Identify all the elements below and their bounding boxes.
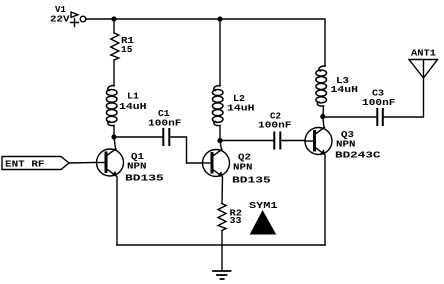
inductor L1 <box>106 86 117 126</box>
svg-text:100nF: 100nF <box>362 98 396 108</box>
symbol SYM1 <box>250 210 277 235</box>
wire Q3 emitter to ground rail <box>324 155 326 245</box>
svg-text:L1: L1 <box>127 92 139 102</box>
junction node C <box>111 134 116 139</box>
svg-text:33: 33 <box>230 216 242 226</box>
svg-text:BD243C: BD243C <box>335 151 381 161</box>
wire node B to L3 top <box>220 19 325 66</box>
svg-text:NPN: NPN <box>336 140 356 150</box>
wire node A to node B <box>114 18 220 20</box>
wire node E to Q3 collector <box>323 117 324 128</box>
voltage source V1 terminal <box>71 12 86 27</box>
svg-text:15: 15 <box>121 45 133 55</box>
svg-text:14uH: 14uH <box>227 104 255 114</box>
transistor Q3 <box>305 127 332 155</box>
wire ENT RF to Q1 base <box>69 162 97 165</box>
wire L3 to node E <box>322 106 325 117</box>
inductor L3 <box>316 66 327 106</box>
wire Q2 emitter to R2 <box>221 177 224 203</box>
wire node C to C1 <box>114 136 162 138</box>
ground symbol <box>213 271 231 279</box>
transistor Q2 <box>203 149 230 177</box>
wire node E to C3 <box>323 116 376 118</box>
svg-text:14uH: 14uH <box>119 102 147 112</box>
wire C1 to Q2 base <box>170 137 202 163</box>
svg-text:22V: 22V <box>50 15 70 25</box>
resistor R1 <box>111 33 119 60</box>
inductor L2 <box>212 86 223 126</box>
svg-text:NPN: NPN <box>127 162 147 172</box>
wire node D to Q2 collector <box>220 141 222 150</box>
svg-text:BD135: BD135 <box>232 176 271 186</box>
svg-text:ENT RF: ENT RF <box>5 160 45 170</box>
wire C2 to Q3 base <box>281 140 305 142</box>
wire node B to L2 <box>219 19 221 86</box>
antenna ANT1 <box>409 60 438 79</box>
wire V1 to node A <box>86 18 114 20</box>
transistor Q1 <box>97 149 124 177</box>
resistor R2 <box>218 204 226 231</box>
wire R2 to ground <box>221 231 223 271</box>
wire R1 to L1 <box>113 60 115 86</box>
svg-text:100nF: 100nF <box>258 121 292 131</box>
junction node D <box>217 138 222 143</box>
input port ENT RF <box>2 157 69 170</box>
wire node A to R1 <box>113 19 115 33</box>
svg-text:ANT1: ANT1 <box>411 49 436 59</box>
wire Q1 emitter to ground rail <box>116 177 118 245</box>
capacitor C3 <box>377 109 383 125</box>
junction node E <box>320 114 325 119</box>
wire L2 to node D <box>219 126 221 141</box>
wire node D to C2 <box>220 140 273 142</box>
wire C3 to antenna <box>384 78 424 117</box>
ground rail wire <box>117 244 325 246</box>
svg-text:14uH: 14uH <box>331 85 359 95</box>
wire node C to Q1 collector <box>114 137 116 149</box>
wire L1 to node C <box>113 126 115 138</box>
capacitor C1 <box>163 129 169 145</box>
capacitor C2 <box>274 133 280 149</box>
junction node A <box>111 16 116 21</box>
svg-text:SYM1: SYM1 <box>249 201 278 211</box>
svg-text:NPN: NPN <box>233 163 253 173</box>
svg-text:BD135: BD135 <box>125 174 164 184</box>
svg-text:100nF: 100nF <box>148 119 182 129</box>
svg-text:Q2: Q2 <box>238 153 251 163</box>
junction node B <box>217 16 222 21</box>
